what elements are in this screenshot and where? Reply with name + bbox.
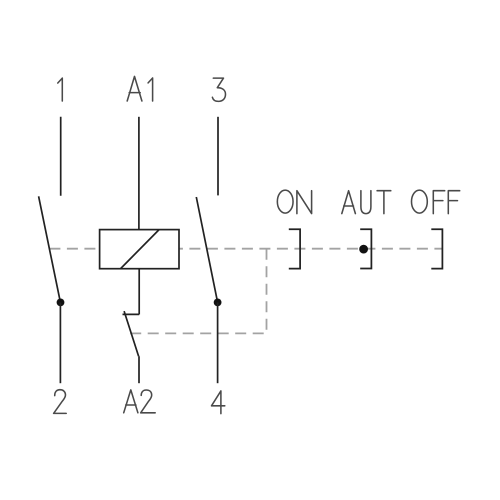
- junction dot pole 1-2: [57, 299, 65, 307]
- label 1: [58, 78, 63, 101]
- wire terminal A1: [138, 117, 140, 230]
- label A1: [127, 76, 152, 101]
- junction dot pole 3-4: [214, 299, 222, 307]
- label 4: [212, 391, 225, 414]
- coil K1: [100, 230, 179, 269]
- selector bracket ON: [289, 229, 300, 268]
- selector bracket OFF: [431, 229, 442, 268]
- wire terminal 2: [59, 302, 61, 383]
- label OFF: [412, 190, 460, 214]
- label AUT: [342, 191, 391, 214]
- label A2: [124, 390, 156, 413]
- contact blade pole 1-2: [39, 196, 61, 302]
- aux switch A2 blade: [124, 311, 139, 356]
- dashed linkage branch to A2 switch: [130, 249, 266, 334]
- wire coil to A2 switch: [138, 269, 140, 315]
- wire terminal 3: [217, 117, 219, 196]
- selector bracket AUT: [360, 229, 371, 268]
- dashed linkage line main horizontal: [49, 248, 442, 250]
- wire terminal 1: [60, 117, 62, 196]
- aux switch A2 pivot bar: [123, 313, 140, 315]
- label ON: [277, 190, 311, 214]
- wire terminal A2: [138, 356, 140, 383]
- label 3: [212, 78, 225, 101]
- wire terminal 4: [217, 302, 219, 383]
- label 2: [54, 390, 67, 414]
- contact blade pole 3-4: [196, 197, 217, 302]
- selector position dot AUT: [359, 245, 368, 254]
